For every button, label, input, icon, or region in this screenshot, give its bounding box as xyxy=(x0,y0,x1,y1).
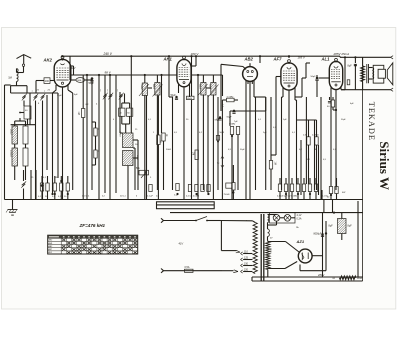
coupling row drops xyxy=(280,178,316,200)
wire AK2 grid left xyxy=(36,81,44,94)
wire v296 v302 xyxy=(297,100,302,195)
wire v169 xyxy=(169,56,173,97)
svg-text:0,5MΩ: 0,5MΩ xyxy=(229,124,236,126)
tap stubs xyxy=(243,254,252,272)
wire ab2 drops xyxy=(232,111,250,200)
label TEKADE xyxy=(367,102,376,141)
wire v265 xyxy=(265,97,267,190)
tube AL1 top cap xyxy=(335,58,338,62)
antenna xyxy=(17,55,32,64)
label lamp rating xyxy=(297,214,302,220)
label 10318 xyxy=(10,150,13,157)
svg-text:50μF: 50μF xyxy=(89,83,95,85)
tube AH1 pins xyxy=(179,56,197,199)
wire v332 down xyxy=(332,200,334,213)
left bias resistor row xyxy=(21,170,69,200)
if2 primary xyxy=(201,83,206,96)
detector row dots xyxy=(176,193,209,195)
signal table grid xyxy=(48,235,138,254)
svg-text:1M: 1M xyxy=(274,162,276,165)
svg-text:98 V: 98 V xyxy=(105,71,112,75)
svg-text:0,5A: 0,5A xyxy=(185,266,190,269)
antenna insulator node xyxy=(22,64,24,66)
tube AB2 envelope xyxy=(243,67,258,82)
label bottom right misc xyxy=(0,0,1,1)
svg-text:50μF: 50μF xyxy=(227,117,233,119)
grid resistor AF7 xyxy=(269,97,275,190)
wire speaker return xyxy=(341,89,391,91)
label 285V xyxy=(333,52,350,56)
mixer coil 4016 xyxy=(119,108,125,116)
svg-text:1M: 1M xyxy=(191,152,193,155)
wire v146 xyxy=(146,96,148,200)
title block divider rule xyxy=(362,57,364,281)
label misc1 xyxy=(37,90,51,92)
trimmer cap 2 xyxy=(33,94,38,101)
value labels bottom rows xyxy=(82,192,346,198)
value labels mid xyxy=(186,119,245,151)
wire AZ1 out xyxy=(268,213,324,277)
tube AZ1 anodes xyxy=(302,253,309,261)
tube AK2 pins xyxy=(51,66,73,200)
cap 8000 xyxy=(314,233,325,236)
label Sirius W xyxy=(377,141,392,190)
label AF7 xyxy=(273,57,283,62)
wire v110 xyxy=(109,75,111,200)
svg-text:AB2: AB2 xyxy=(244,57,254,62)
svg-text:10318: 10318 xyxy=(119,131,121,137)
svg-text:0,5MΩ: 0,5MΩ xyxy=(227,96,234,98)
label 5050 xyxy=(10,129,13,135)
wire coil links xyxy=(122,103,130,133)
wire v87 xyxy=(86,75,88,200)
wire coil to junction row xyxy=(11,82,27,94)
label AB2 xyxy=(244,57,254,62)
wire v161 xyxy=(161,75,163,133)
tube AF7 envelope xyxy=(281,63,297,90)
wire v3236 xyxy=(323,200,325,213)
svg-text:8000μF: 8000μF xyxy=(314,233,322,235)
wire lamp circuit xyxy=(268,215,296,226)
label AH1 xyxy=(163,57,173,62)
svg-text:0,1MΩ: 0,1MΩ xyxy=(312,135,319,137)
oscillator coil upper xyxy=(123,133,134,148)
svg-text:ZF=476 kHz: ZF=476 kHz xyxy=(79,223,106,228)
mains switch xyxy=(161,217,221,223)
wire antenna down xyxy=(17,66,24,72)
label AZ1 xyxy=(296,239,305,244)
tube AH1 grids xyxy=(179,64,190,84)
wire v218 xyxy=(217,97,219,190)
transformer core xyxy=(261,214,264,281)
label 240V xyxy=(103,52,113,56)
wire v70 col xyxy=(69,56,71,75)
svg-text:220: 220 xyxy=(244,269,249,272)
wire AZ1 bottom xyxy=(268,262,326,271)
antenna coupling coil xyxy=(17,69,19,82)
label 98V xyxy=(105,71,112,75)
padder coil pair xyxy=(23,126,28,166)
junction dots bus1 xyxy=(61,55,346,58)
al1 cathode cluster xyxy=(327,97,337,190)
label choke caps xyxy=(329,225,353,228)
junction dots bus2 xyxy=(86,74,199,76)
wire v331b xyxy=(0,0,1,1)
al1 grid cap xyxy=(311,75,330,97)
if transformer 1 primary xyxy=(142,83,147,96)
coupling caps under AH1 xyxy=(171,95,195,100)
tube AZ1 envelope xyxy=(298,249,312,263)
trimmer mid 2 xyxy=(119,93,124,100)
terminal arrow speaker return xyxy=(391,88,394,91)
bias resistor bottom xyxy=(333,276,363,280)
svg-text:5118: 5118 xyxy=(208,84,210,89)
wire choke conns xyxy=(333,212,342,241)
signal table row labels xyxy=(49,239,54,255)
svg-text:AZ1: AZ1 xyxy=(296,239,305,244)
wire left vertical 30 xyxy=(29,93,31,125)
svg-text:AF7: AF7 xyxy=(273,57,283,62)
svg-text:0,1 50 4: 0,1 50 4 xyxy=(82,196,90,198)
hf choke xyxy=(76,78,85,83)
tap labels xyxy=(244,251,249,272)
svg-text:50μF: 50μF xyxy=(57,95,63,97)
svg-text:50μF: 50μF xyxy=(220,132,225,134)
wire AB2 top xyxy=(221,63,250,111)
svg-text:10318: 10318 xyxy=(10,150,13,157)
wire trimmer drops xyxy=(24,101,43,200)
wire v222 low xyxy=(216,100,235,200)
tube AH1 top cap xyxy=(183,56,186,60)
label if1 xyxy=(140,84,154,90)
wire v260 xyxy=(259,56,261,63)
wire AB2 box xyxy=(230,97,266,126)
wire v308 xyxy=(306,97,318,195)
label 41V xyxy=(179,241,184,245)
wire psu top link xyxy=(0,0,1,1)
oscillator coil lower xyxy=(123,151,134,166)
wire h97 af7 xyxy=(295,96,302,98)
wire v326 xyxy=(320,97,322,200)
ht winding xyxy=(266,241,270,270)
svg-text:50kΩ: 50kΩ xyxy=(166,149,171,151)
value labels AK2 col xyxy=(57,90,118,106)
wire far left drop xyxy=(4,85,6,200)
svg-text:0,2 0,1 0,5MΩ: 0,2 0,1 0,5MΩ xyxy=(186,196,200,198)
svg-text:390Ω: 390Ω xyxy=(357,278,363,280)
fuse xyxy=(161,266,222,273)
wire left jog xyxy=(5,84,11,86)
wire fuse to tap xyxy=(222,270,238,273)
svg-text:8μF: 8μF xyxy=(329,225,334,228)
wire v124 xyxy=(122,94,130,104)
label 05M xyxy=(221,104,223,108)
tube AH1 envelope xyxy=(177,59,191,86)
wire v92 xyxy=(91,79,93,190)
wire v255 xyxy=(255,97,257,190)
tube AK2 top cap xyxy=(61,56,64,61)
wire v306b xyxy=(302,63,310,78)
wire speaker conn xyxy=(369,68,373,80)
left row dots xyxy=(41,180,69,195)
transformer primary winding xyxy=(253,223,257,274)
tube AB2 plates xyxy=(247,71,254,85)
wire osc coil taps xyxy=(120,92,138,200)
svg-text:0,1 60: 0,1 60 xyxy=(322,196,328,198)
svg-text:AK2: AK2 xyxy=(43,58,53,63)
speaker magnet xyxy=(378,69,385,78)
tube AF7 pins xyxy=(283,87,295,200)
label antenna coil xyxy=(8,76,12,80)
coupling row labels xyxy=(277,196,300,198)
diode load resistor xyxy=(191,150,198,160)
trimmer cap 1 xyxy=(22,94,27,101)
junction speaker bus xyxy=(347,56,356,85)
cap 8uF speaker xyxy=(348,57,358,89)
value labels if1 xyxy=(148,119,178,179)
svg-text:AH1: AH1 xyxy=(163,57,173,62)
tap arrows xyxy=(241,252,243,273)
svg-text:DRfL: DRfL xyxy=(77,80,83,82)
svg-text:1M: 1M xyxy=(77,112,79,115)
wire switch to primary xyxy=(221,221,256,253)
tube AK2 grids xyxy=(56,64,68,85)
wire v319 up xyxy=(0,0,1,1)
signal table header xyxy=(48,235,138,238)
label AL1 xyxy=(321,57,331,62)
trimmer pair mid xyxy=(103,93,113,100)
svg-text:350V: 350V xyxy=(269,248,271,253)
wire v314 xyxy=(314,120,316,190)
label misc2 xyxy=(96,104,98,106)
wire v99 xyxy=(98,75,100,200)
wire v281 xyxy=(282,97,284,190)
wire coil stack xyxy=(15,118,26,180)
ab2 load cluster xyxy=(230,127,239,156)
wire v105 xyxy=(104,75,106,193)
svg-text:100: 100 xyxy=(45,80,50,83)
anode resistors 03 01 xyxy=(303,120,319,190)
svg-text:0,3A: 0,3A xyxy=(297,218,302,221)
wire v198 xyxy=(197,75,199,200)
svg-text:AL1: AL1 xyxy=(321,57,331,62)
wire v172 xyxy=(172,97,174,190)
svg-text:280V: 280V xyxy=(317,273,324,277)
output transformer primary xyxy=(372,68,373,80)
wire ht top to AZ1 xyxy=(268,242,299,253)
psu bottom bus 2 xyxy=(252,277,363,281)
wire AL1 anode xyxy=(341,57,345,89)
svg-text:150: 150 xyxy=(244,263,249,266)
chassis box xyxy=(157,202,215,209)
svg-text:125: 125 xyxy=(244,257,249,260)
svg-text:50μF: 50μF xyxy=(341,119,346,121)
ground xyxy=(6,200,18,216)
label if2 xyxy=(198,84,210,89)
wire chassis bus upper xyxy=(170,212,363,214)
svg-text:0,1 μF: 0,1 μF xyxy=(147,196,154,198)
wire h120 xyxy=(297,119,317,121)
label 4016 xyxy=(25,110,28,112)
resistor 158 area xyxy=(157,96,162,200)
svg-text:10V: 10V xyxy=(71,67,76,70)
heater winding AZ1 xyxy=(268,225,270,241)
svg-text:285V 25mA: 285V 25mA xyxy=(333,52,350,56)
svg-text:5050: 5050 xyxy=(10,129,13,135)
tube AL1 envelope xyxy=(329,61,342,89)
wire if1 xyxy=(139,75,163,200)
svg-text:1M: 1M xyxy=(8,76,12,80)
trimmer cap 3 xyxy=(40,94,45,101)
wire AB2 bottom xyxy=(246,80,254,155)
extra left verticals xyxy=(47,93,58,178)
label ab2 cluster xyxy=(229,124,236,126)
terminal arrow top right xyxy=(391,56,394,59)
svg-text:185 V: 185 V xyxy=(298,56,306,60)
feed resistor vertical xyxy=(361,57,365,89)
label 90V xyxy=(71,67,76,70)
wire top HT bus xyxy=(61,56,391,57)
wire v358 xyxy=(357,201,359,277)
detector row labels xyxy=(147,195,200,198)
osc grid resistor 1k xyxy=(162,133,167,190)
svg-text:5119: 5119 xyxy=(140,85,142,90)
tuning coil 5050 xyxy=(12,126,18,144)
wire coil drop xyxy=(27,119,29,125)
if transformer 1 secondary xyxy=(155,83,160,96)
wire v191 xyxy=(191,56,193,199)
value labels osc xyxy=(113,119,138,160)
label 180V xyxy=(191,52,200,56)
svg-text:110: 110 xyxy=(244,251,248,254)
junction cap 50uF xyxy=(89,77,95,85)
wire v302b xyxy=(301,78,303,97)
wire if2 legs xyxy=(198,75,219,200)
wire AF7 grid xyxy=(271,77,281,156)
speaker cone xyxy=(387,63,393,85)
coupling row right xyxy=(278,184,317,195)
label AK2 xyxy=(43,58,53,63)
wire v326 psu xyxy=(325,221,327,271)
svg-text:750kΩ: 750kΩ xyxy=(224,194,230,196)
wire AF7 top xyxy=(288,56,290,58)
speaker frame xyxy=(373,65,384,83)
svg-text:5118: 5118 xyxy=(152,84,154,89)
tube AL1 grids xyxy=(331,66,341,86)
tube AK2 envelope xyxy=(54,59,71,87)
svg-text:8μF: 8μF xyxy=(348,65,353,68)
wire v116 xyxy=(115,75,117,193)
output transformer core xyxy=(367,64,369,83)
label 185V xyxy=(298,56,306,60)
mixer coil 5018 xyxy=(127,108,133,116)
wire v135 xyxy=(133,148,135,190)
value labels right xyxy=(258,103,354,161)
wire v208 xyxy=(207,95,209,195)
svg-text:Sirius W: Sirius W xyxy=(377,141,392,190)
wire screen bus 98V xyxy=(70,74,223,76)
tube AF7 top cap xyxy=(288,60,291,64)
avc resistor 05M xyxy=(222,96,238,101)
detector row resistors xyxy=(149,184,210,192)
svg-text:50 0,1: 50 0,1 xyxy=(120,196,126,198)
value labels upper left xyxy=(31,91,58,179)
wire choke xyxy=(70,75,92,80)
wire band switch row xyxy=(11,124,36,126)
wire v322 xyxy=(322,97,338,200)
wire v131 xyxy=(130,56,132,133)
svg-text:TEKADE: TEKADE xyxy=(367,102,376,141)
lamp box xyxy=(270,213,296,224)
volume pot xyxy=(136,168,149,178)
value labels psu xyxy=(246,220,299,253)
screen resistor 1M xyxy=(77,75,100,200)
svg-text:0,1 0,3 5μF 0,2 0,1MΩ 1: 0,1 0,3 5μF 0,2 0,1MΩ 1 xyxy=(277,196,300,198)
label ZF frequency xyxy=(79,223,106,228)
svg-text:8μF: 8μF xyxy=(348,225,353,228)
tuning coil 10318 xyxy=(12,148,18,166)
wire chassis bus xyxy=(5,199,363,201)
avc cap xyxy=(215,116,222,121)
svg-text:50μF: 50μF xyxy=(240,149,245,151)
wire v289 col xyxy=(295,99,297,101)
signal table marks xyxy=(62,239,137,254)
wire h93 left xyxy=(11,92,58,94)
label 280V xyxy=(317,273,324,277)
filter choke xyxy=(338,219,347,234)
tube AF7 grids xyxy=(283,67,295,87)
svg-text:240 V: 240 V xyxy=(103,52,113,56)
wire v222 xyxy=(222,75,224,96)
wave band coil xyxy=(19,106,31,119)
svg-text:5119: 5119 xyxy=(198,84,200,89)
label left row xyxy=(38,196,67,198)
heater winding lamps xyxy=(268,215,269,223)
dial lamp 1 xyxy=(273,215,280,222)
svg-text:50μF: 50μF xyxy=(311,76,317,78)
if2 secondary xyxy=(211,83,216,96)
psu bottom bus 1 xyxy=(252,276,363,278)
dial lamp 2 xyxy=(284,215,291,222)
grid stopper box xyxy=(44,78,54,84)
svg-text:41V: 41V xyxy=(179,241,184,245)
tube AL1 pins xyxy=(331,86,341,110)
